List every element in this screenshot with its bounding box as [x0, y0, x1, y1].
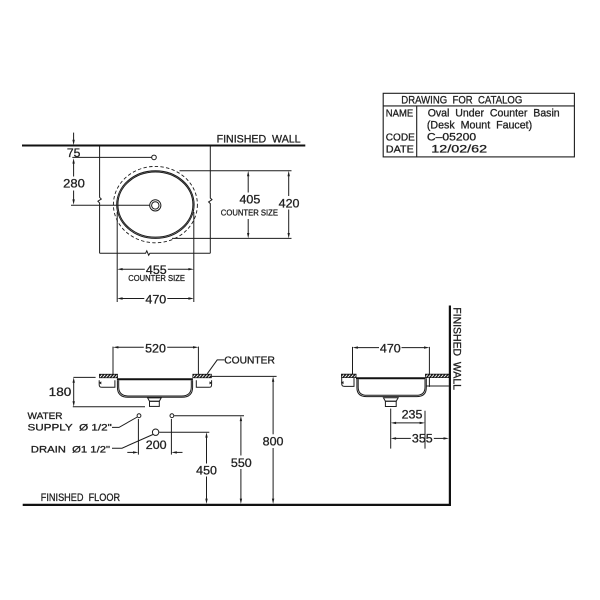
svg-text:235: 235 — [402, 408, 423, 422]
extension line right of cutout — [193, 212, 195, 302]
dim 200 line with outside arrows — [127, 451, 133, 453]
svg-text:DRAIN Ø1 1/2": DRAIN Ø1 1/2" — [31, 445, 110, 456]
dim 235 extension right — [424, 411, 426, 449]
counter seal line to wall (side) — [427, 385, 449, 387]
svg-text:FINISHED WALL: FINISHED WALL — [217, 134, 301, 146]
drain centerline extension (side) — [390, 409, 392, 449]
svg-text:280: 280 — [63, 177, 85, 191]
svg-text:Oval Under Counter Basin: Oval Under Counter Basin — [428, 108, 560, 120]
basin rim thick line (side) — [356, 377, 426, 379]
drain body (side) — [385, 401, 396, 406]
svg-text:C–05200: C–05200 — [427, 131, 476, 143]
svg-text:CODE: CODE — [386, 131, 415, 143]
dim 180 extension bottom — [73, 406, 145, 408]
drain body (front) — [150, 401, 160, 406]
finished floor line — [23, 504, 451, 506]
catalog table outer border — [383, 93, 574, 157]
svg-text:200: 200 — [146, 438, 167, 452]
catalog table column divider — [416, 106, 418, 157]
basin rim left wing (front) — [99, 380, 115, 387]
basin bowl outer (side) — [357, 378, 426, 396]
drain flange (front) — [148, 398, 162, 401]
svg-text:420: 420 — [279, 197, 300, 211]
dim 470 line with arrows (side) — [353, 346, 358, 348]
dim 405 vertical line with arrows — [247, 171, 249, 176]
counter slab hatched left (front) — [99, 374, 117, 378]
drain inner circle (plan) — [152, 202, 159, 209]
dim 520 extension line left — [112, 347, 114, 374]
faucet hole circle (plan) — [152, 155, 157, 160]
basin hidden rim dashed ellipse — [113, 166, 197, 242]
counter slab hatched right (side) — [425, 374, 449, 378]
svg-text:520: 520 — [145, 341, 166, 355]
dim 520 line with arrows — [113, 346, 118, 348]
counter outline (plan) right edge with break — [209, 147, 212, 254]
drain hole (front) — [152, 429, 158, 435]
dim 200 extension right — [170, 419, 172, 455]
dim 280 vertical line with arrows — [72, 158, 74, 163]
rim tip arrow (side) — [341, 381, 344, 384]
extension line faucet level — [72, 156, 151, 158]
dim 200 extension left — [137, 419, 139, 455]
water supply leader line — [112, 417, 137, 427]
dim 180 line with arrows — [73, 377, 75, 382]
dim 550 vertical line with arrows — [240, 416, 242, 421]
counter cutout ellipse outer — [117, 171, 194, 239]
water supply hole left — [137, 414, 141, 418]
svg-text:470: 470 — [380, 341, 401, 355]
extension line left of cutout — [116, 212, 118, 302]
svg-text:SUPPLY Ø 1/2": SUPPLY Ø 1/2" — [28, 423, 112, 434]
dim 550 extension top — [174, 415, 244, 417]
extension line top of cutout — [180, 170, 292, 172]
svg-text:450: 450 — [196, 463, 217, 477]
dim 235 line with arrows — [391, 422, 396, 424]
svg-text:(Desk Mount Faucet): (Desk Mount Faucet) — [427, 119, 532, 131]
rim right tip arrow — [210, 381, 213, 384]
dim 520 extension line right — [197, 347, 199, 374]
dim 420 vertical line with arrows — [288, 171, 290, 176]
drain leader line — [112, 435, 153, 449]
dim 470 extension right (side) — [428, 347, 430, 387]
svg-text:COUNTER SIZE: COUNTER SIZE — [221, 208, 278, 218]
drain flange (side) — [383, 398, 398, 402]
svg-text:DATE: DATE — [386, 143, 414, 155]
counter outline (plan) bottom edge with break — [100, 251, 211, 256]
basin bowl inner (front) — [119, 380, 192, 396]
catalog table header divider — [383, 105, 574, 107]
finished wall line (side) — [449, 306, 451, 506]
basin bowl inner (side) — [358, 379, 425, 395]
svg-text:180: 180 — [49, 385, 72, 399]
svg-text:12/02/62: 12/02/62 — [431, 143, 487, 155]
counter outline (plan) left edge with break — [98, 147, 101, 254]
water supply hole right — [170, 414, 174, 418]
dim 470 line with arrows — [117, 297, 122, 299]
svg-text:COUNTER SIZE: COUNTER SIZE — [128, 273, 185, 283]
dim 470 extension left (side) — [352, 347, 354, 374]
counter slab hatched left (side) — [341, 374, 356, 378]
basin rim front wing (side) — [342, 378, 354, 387]
counter slab hatched right (front) — [193, 374, 212, 378]
counter cutout ellipse inner — [118, 172, 193, 237]
svg-text:75: 75 — [67, 148, 81, 160]
svg-text:WATER: WATER — [28, 411, 63, 422]
svg-text:405: 405 — [240, 192, 261, 206]
dim 800 vertical line with arrows — [272, 376, 274, 381]
svg-text:COUNTER: COUNTER — [224, 356, 275, 367]
dim 455 line with arrows — [117, 268, 122, 270]
svg-text:800: 800 — [263, 435, 284, 449]
dim 180 extension top — [73, 376, 95, 378]
basin bowl outer (front) — [117, 380, 192, 397]
drain outer circle (plan) — [150, 200, 161, 211]
svg-text:355: 355 — [412, 432, 433, 446]
svg-text:FINISHED FLOOR: FINISHED FLOOR — [41, 492, 120, 504]
dim 800 extension top — [212, 375, 277, 377]
counter leader line — [207, 360, 224, 374]
extension line bottom of cutout — [172, 237, 292, 239]
dim 355 line with arrows — [391, 437, 396, 439]
dim 450 extension top — [159, 431, 209, 433]
basin rim thick line (front) — [117, 378, 193, 380]
dim 75 arrow above wall — [73, 133, 75, 140]
svg-text:DRAWING FOR CATALOG: DRAWING FOR CATALOG — [401, 94, 522, 106]
basin rim right wing (front) — [196, 380, 211, 387]
finished wall line (plan view) — [22, 145, 305, 147]
dim 450 vertical line with arrows — [205, 432, 207, 437]
svg-text:NAME: NAME — [386, 107, 413, 119]
extension line basin centerline — [71, 204, 150, 206]
svg-text:550: 550 — [231, 456, 252, 470]
svg-text:470: 470 — [145, 292, 166, 306]
rim left tip arrow — [99, 381, 102, 384]
svg-text:FINISHED WALL: FINISHED WALL — [450, 307, 462, 390]
